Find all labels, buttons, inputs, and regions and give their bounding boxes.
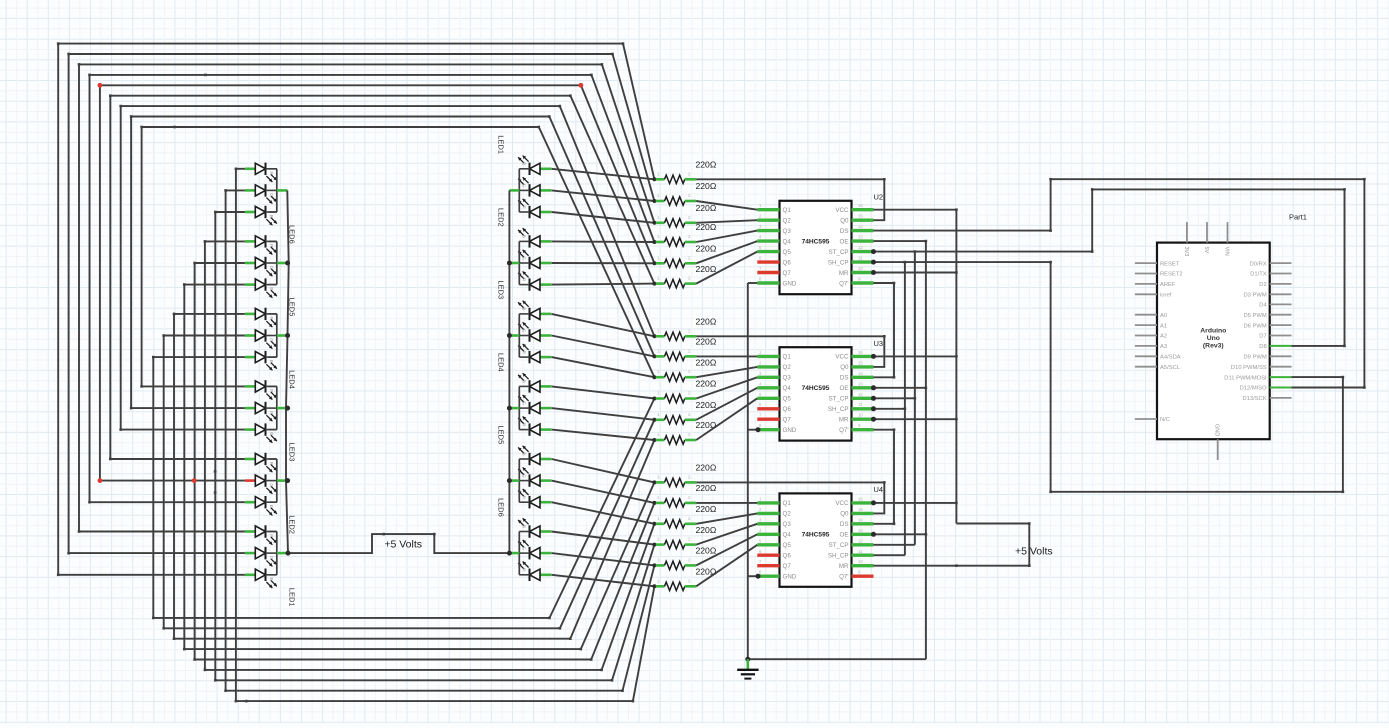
svg-text:GND: GND xyxy=(1214,424,1220,436)
svg-text:D6 PWM: D6 PWM xyxy=(1243,323,1266,329)
svg-text:RESET: RESET xyxy=(1160,261,1180,267)
node +5 Volts (right) xyxy=(874,522,1053,567)
svg-text:Q1: Q1 xyxy=(783,354,792,361)
svg-text:D3 PWM: D3 PWM xyxy=(1243,293,1266,299)
wire R7 to U3 Q0 (around top) xyxy=(696,335,885,367)
wire middle LED anode 2 to resistor xyxy=(552,190,655,201)
resistor R2 220&#937; xyxy=(652,181,716,205)
wire R13 to U4 Q0 (around top) xyxy=(696,481,885,513)
wire SH_CP bus xyxy=(871,261,906,555)
svg-text:ST_CP: ST_CP xyxy=(829,396,849,403)
svg-text:GND: GND xyxy=(783,574,797,581)
svg-text:LED3: LED3 xyxy=(288,443,297,462)
resistor R4 220&#937; xyxy=(652,222,716,246)
op-amp U2 74HC595 shift register xyxy=(757,193,883,295)
wire middle LED anode 10 to resistor xyxy=(552,386,655,398)
svg-text:B: B xyxy=(268,577,274,580)
svg-text:LED3: LED3 xyxy=(497,280,506,299)
svg-text:A5/SCL: A5/SCL xyxy=(1160,365,1181,371)
wire R18 to U4 Q4... pin xyxy=(696,545,757,587)
svg-text:G: G xyxy=(520,474,526,478)
svg-text:15: 15 xyxy=(858,360,863,365)
svg-text:Q7: Q7 xyxy=(783,563,792,570)
svg-text:A4/SDA: A4/SDA xyxy=(1160,355,1181,361)
RGB LED LED5 (middle bank) xyxy=(497,426,552,509)
wire middle LED anode 15 to resistor xyxy=(552,502,655,524)
svg-text:G: G xyxy=(268,338,274,342)
svg-text:Q6: Q6 xyxy=(783,259,792,266)
resistor R1 220&#937; xyxy=(652,160,716,184)
resistor R18 220&#937; xyxy=(652,567,716,591)
wire R6 to U2 Q4... pin xyxy=(696,252,757,284)
svg-text:74HC595: 74HC595 xyxy=(802,239,830,246)
svg-text:B: B xyxy=(268,360,274,363)
svg-text:Q6: Q6 xyxy=(783,406,792,413)
svg-text:Q2: Q2 xyxy=(783,364,792,371)
wire middle LED anode 8 to resistor xyxy=(552,336,655,357)
wire R16 to U4 Q2... pin xyxy=(696,524,757,545)
svg-text:Q5: Q5 xyxy=(783,542,792,549)
svg-text:LED1: LED1 xyxy=(288,588,297,607)
RGB LED LED2 (middle bank) xyxy=(497,208,552,291)
svg-text:Part1: Part1 xyxy=(1289,213,1307,222)
svg-text:G: G xyxy=(268,556,274,560)
svg-text:(Rev3): (Rev3) xyxy=(1203,343,1224,350)
RGB LED LED6 (middle bank) xyxy=(497,498,552,581)
wire middle LED anode 12 to resistor xyxy=(552,430,655,440)
svg-text:ST_CP: ST_CP xyxy=(829,542,849,549)
svg-text:MR: MR xyxy=(839,270,849,277)
svg-text:D9 PWM: D9 PWM xyxy=(1243,355,1266,361)
RGB LED LED2 (left bank) xyxy=(245,453,297,534)
svg-text:LED1: LED1 xyxy=(497,135,506,154)
RGB LED LED3 (middle bank) xyxy=(497,280,552,363)
svg-text:R: R xyxy=(520,205,526,209)
wire bus bottom 5 (left LED bank to resistor) xyxy=(193,262,654,661)
wire bus top 5 (left LED bank to resistor) xyxy=(99,84,655,482)
svg-text:Q6: Q6 xyxy=(783,553,792,560)
svg-text:LED4: LED4 xyxy=(497,353,506,372)
svg-text:+5 Volts: +5 Volts xyxy=(384,539,422,551)
svg-text:14: 14 xyxy=(858,517,863,522)
svg-text:ioref: ioref xyxy=(1160,293,1172,299)
svg-text:B: B xyxy=(520,452,526,455)
op-amp U4 74HC595 shift register xyxy=(757,485,883,587)
svg-text:R: R xyxy=(520,423,526,427)
red corner markers on bus top 5 xyxy=(98,83,584,88)
svg-text:B: B xyxy=(520,307,526,310)
svg-text:N/C: N/C xyxy=(1160,417,1170,423)
resistor R15 220&#937; xyxy=(652,504,716,528)
RGB LED LED5 (left bank) xyxy=(245,235,297,316)
wire VCC bus xyxy=(871,208,958,523)
wire middle LED anode 1 to resistor xyxy=(552,169,655,180)
wire common bus middle bank xyxy=(507,190,512,553)
svg-text:A3: A3 xyxy=(1160,344,1167,350)
svg-text:D5 PWM: D5 PWM xyxy=(1243,313,1266,319)
wire bus bottom 3 (left LED bank to resistor) xyxy=(214,211,654,682)
wire bus top 2 (left LED bank to resistor) xyxy=(67,53,654,555)
RGB LED LED4 (left bank) xyxy=(245,308,297,389)
wire R2 to U2 Q0... pin xyxy=(696,201,757,210)
wire bus bottom 1 (left LED bank to resistor) xyxy=(235,168,655,703)
svg-text:Q1: Q1 xyxy=(783,500,792,507)
resistor R11 220&#937; xyxy=(652,400,716,424)
resistor R17 220&#937; xyxy=(652,546,716,570)
svg-text:AREF: AREF xyxy=(1160,282,1176,288)
svg-text:LED4: LED4 xyxy=(288,370,297,389)
svg-text:B: B xyxy=(520,235,526,238)
svg-text:12: 12 xyxy=(858,392,863,397)
wire R15 to U4 Q1... pin xyxy=(696,513,757,523)
svg-text:Q7': Q7' xyxy=(839,574,848,581)
svg-text:G: G xyxy=(268,266,274,270)
svg-text:LED5: LED5 xyxy=(497,426,506,445)
svg-text:G: G xyxy=(268,483,274,487)
svg-text:220Ω: 220Ω xyxy=(696,337,717,347)
RGB LED LED3 (left bank) xyxy=(245,380,297,461)
node +5 Volts (left) xyxy=(286,533,512,556)
svg-text:Q2: Q2 xyxy=(783,218,792,225)
svg-text:R: R xyxy=(520,496,526,500)
svg-text:Q4: Q4 xyxy=(783,385,792,392)
svg-text:13: 13 xyxy=(858,528,863,533)
svg-text:13: 13 xyxy=(858,235,863,240)
svg-text:Q5: Q5 xyxy=(783,249,792,256)
svg-text:MR: MR xyxy=(839,563,849,570)
svg-text:DS: DS xyxy=(840,228,849,235)
wire middle LED anode 13 to resistor xyxy=(552,459,655,482)
svg-text:220Ω: 220Ω xyxy=(696,264,717,274)
svg-text:11: 11 xyxy=(858,402,863,407)
svg-text:B: B xyxy=(268,215,274,218)
svg-text:220Ω: 220Ω xyxy=(696,483,717,493)
wire bus top 3 (left LED bank to resistor) xyxy=(78,63,655,533)
svg-text:A1: A1 xyxy=(1160,323,1167,329)
svg-text:VCC: VCC xyxy=(835,500,849,507)
svg-text:D0/RX: D0/RX xyxy=(1250,261,1267,267)
ground xyxy=(737,659,758,678)
svg-text:R: R xyxy=(268,317,274,321)
wire middle LED anode 5 to resistor xyxy=(552,262,655,264)
resistor R7 220&#937; xyxy=(652,317,716,341)
svg-text:Q1: Q1 xyxy=(783,207,792,214)
svg-text:B: B xyxy=(520,380,526,383)
RGB LED LED6 (left bank) xyxy=(245,163,297,244)
wire R17 to U4 Q3... pin xyxy=(696,534,757,565)
svg-text:SH_CP: SH_CP xyxy=(828,553,849,560)
svg-text:15: 15 xyxy=(858,214,863,219)
wire R3 to U2 Q1... pin xyxy=(696,220,757,223)
svg-text:Q5: Q5 xyxy=(783,396,792,403)
svg-text:D4: D4 xyxy=(1259,303,1267,309)
svg-text:G: G xyxy=(520,547,526,551)
svg-text:R: R xyxy=(268,534,274,538)
svg-text:R: R xyxy=(268,389,274,393)
svg-text:74HC595: 74HC595 xyxy=(802,385,830,392)
svg-text:G: G xyxy=(520,184,526,188)
svg-text:Q2: Q2 xyxy=(783,511,792,518)
wire middle LED anode 7 to resistor xyxy=(552,314,655,336)
svg-text:DS: DS xyxy=(840,521,849,528)
wire R4 to U2 Q2... pin xyxy=(696,231,757,242)
svg-text:14: 14 xyxy=(858,371,863,376)
wire bus top 1 (left LED bank to resistor) xyxy=(57,42,655,576)
RGB LED LED1 (middle bank) xyxy=(497,135,552,218)
resistor R16 220&#937; xyxy=(652,525,716,549)
svg-text:220Ω: 220Ω xyxy=(696,222,717,232)
wire U2 Q7' to U3 DS xyxy=(874,282,896,379)
wire R14 to U4 Q0... pin xyxy=(696,502,757,504)
svg-text:SH_CP: SH_CP xyxy=(828,259,849,266)
svg-text:D1/TX: D1/TX xyxy=(1250,272,1267,278)
svg-text:B: B xyxy=(520,162,526,165)
wire middle LED anode 11 to resistor xyxy=(552,408,655,420)
wire bus top 7 (left LED bank to resistor) xyxy=(119,105,654,431)
svg-text:Q7': Q7' xyxy=(839,427,848,434)
svg-text:220Ω: 220Ω xyxy=(696,379,717,389)
svg-text:ST_CP: ST_CP xyxy=(829,249,849,256)
wire R10 to U3 Q2... pin xyxy=(696,377,757,398)
svg-text:D2: D2 xyxy=(1259,282,1266,288)
wire U2 ST_CP to Arduino D8 xyxy=(871,188,1346,347)
svg-text:Q3: Q3 xyxy=(783,228,792,235)
svg-text:D11 PWM/MOSI: D11 PWM/MOSI xyxy=(1224,375,1267,381)
svg-text:R: R xyxy=(520,351,526,355)
wire middle LED anode 3 to resistor xyxy=(552,212,655,223)
svg-text:GND: GND xyxy=(783,427,797,434)
wire middle LED anode 9 to resistor xyxy=(552,357,655,377)
svg-text:Q7: Q7 xyxy=(783,417,792,424)
svg-text:U3: U3 xyxy=(874,339,884,348)
wire bus top 9 (left LED bank to resistor) xyxy=(140,126,654,388)
wire common bus left bank xyxy=(285,190,290,553)
svg-text:OE: OE xyxy=(840,238,849,245)
RGB LED LED4 (middle bank) xyxy=(497,353,552,436)
svg-text:220Ω: 220Ω xyxy=(696,244,717,254)
svg-text:Q4: Q4 xyxy=(783,532,792,539)
wire U3 Q7' to U4 DS xyxy=(874,428,896,525)
svg-text:U2: U2 xyxy=(874,193,884,202)
resistor R9 220&#937; xyxy=(652,357,716,381)
resistor R8 220&#937; xyxy=(652,337,716,361)
svg-text:11: 11 xyxy=(858,549,863,554)
wire middle LED anode 18 to resistor xyxy=(552,575,655,587)
svg-text:220Ω: 220Ω xyxy=(696,181,717,191)
svg-text:10: 10 xyxy=(858,559,863,564)
svg-text:Uno: Uno xyxy=(1207,335,1220,342)
svg-text:VIN: VIN xyxy=(1224,247,1230,256)
svg-text:D12/MISO: D12/MISO xyxy=(1240,386,1268,392)
wire R8 to U3 Q0... pin xyxy=(696,355,757,357)
wire bus bottom 9 (left LED bank to resistor) xyxy=(152,356,654,619)
svg-text:Q7': Q7' xyxy=(839,280,848,287)
svg-text:LED2: LED2 xyxy=(497,208,506,227)
svg-text:U4: U4 xyxy=(874,485,884,494)
svg-text:G: G xyxy=(268,193,274,197)
svg-text:SH_CP: SH_CP xyxy=(828,406,849,413)
svg-text:A2: A2 xyxy=(1160,334,1167,340)
svg-text:220Ω: 220Ω xyxy=(696,317,717,327)
wire R12 to U3 Q4... pin xyxy=(696,398,757,440)
svg-text:DS: DS xyxy=(840,375,849,382)
svg-text:G: G xyxy=(520,256,526,260)
svg-text:74HC595: 74HC595 xyxy=(802,531,830,538)
svg-text:10: 10 xyxy=(858,413,863,418)
svg-text:G: G xyxy=(520,329,526,333)
svg-text:OE: OE xyxy=(840,385,849,392)
svg-text:5V: 5V xyxy=(1203,247,1209,254)
svg-text:D10 PWM/SS: D10 PWM/SS xyxy=(1231,365,1267,371)
wire bus bottom 6 (left LED bank to resistor) xyxy=(183,283,654,650)
svg-text:220Ω: 220Ω xyxy=(696,400,717,410)
wire R9 to U3 Q1... pin xyxy=(696,367,757,377)
svg-text:LED6: LED6 xyxy=(497,498,506,517)
svg-text:220Ω: 220Ω xyxy=(696,504,717,514)
wire joint squares xyxy=(173,74,247,703)
wire bus top 6 (left LED bank to resistor) xyxy=(109,94,654,460)
svg-text:G: G xyxy=(268,411,274,415)
svg-text:3V3: 3V3 xyxy=(1183,247,1189,257)
wire R1 to U2 Q0 (around top) xyxy=(696,178,885,220)
svg-text:10: 10 xyxy=(858,266,863,271)
resistor R13 220&#937; xyxy=(652,463,716,487)
wire bus bottom 7 (left LED bank to resistor) xyxy=(173,313,655,640)
resistor R3 220&#937; xyxy=(652,203,716,227)
svg-text:Q0: Q0 xyxy=(840,218,849,225)
svg-text:B: B xyxy=(268,505,274,508)
svg-text:R: R xyxy=(268,462,274,466)
svg-text:LED2: LED2 xyxy=(288,515,297,534)
svg-text:11: 11 xyxy=(858,256,863,261)
svg-text:D8: D8 xyxy=(1259,344,1266,350)
svg-text:220Ω: 220Ω xyxy=(696,203,717,213)
op-amp U3 74HC595 shift register xyxy=(757,339,883,441)
op-amp Part1 Arduino Uno (Rev3) xyxy=(1135,213,1307,461)
svg-text:14: 14 xyxy=(858,224,863,229)
svg-text:+5 Volts: +5 Volts xyxy=(1015,546,1053,558)
wire middle LED anode 6 to resistor xyxy=(552,284,655,285)
wire middle LED anode 14 to resistor xyxy=(552,481,655,503)
svg-text:220Ω: 220Ω xyxy=(696,463,717,473)
svg-text:Q4: Q4 xyxy=(783,238,792,245)
svg-text:RESET2: RESET2 xyxy=(1160,272,1183,278)
resistor R5 220&#937; xyxy=(652,244,716,268)
svg-text:R: R xyxy=(268,244,274,248)
svg-text:D13/SCK: D13/SCK xyxy=(1243,396,1267,402)
wire bus top 4 (left LED bank to resistor) xyxy=(88,74,654,504)
svg-text:16: 16 xyxy=(858,203,863,208)
wire middle LED anode 17 to resistor xyxy=(552,553,655,565)
svg-text:R: R xyxy=(520,568,526,572)
wire U2 SH_CP to Arduino D11/MOSI xyxy=(871,260,1344,494)
svg-text:VCC: VCC xyxy=(835,354,849,361)
wire middle LED anode 16 to resistor xyxy=(552,532,655,545)
svg-text:B: B xyxy=(268,432,274,435)
svg-text:MR: MR xyxy=(839,417,849,424)
svg-text:Q7: Q7 xyxy=(783,270,792,277)
wire bus bottom 4 (left LED bank to resistor) xyxy=(204,240,655,671)
wire R11 to U3 Q3... pin xyxy=(696,388,757,420)
RGB LED LED1 (left bank) xyxy=(245,525,297,606)
svg-text:Q3: Q3 xyxy=(783,375,792,382)
resistor R14 220&#937; xyxy=(652,483,716,507)
svg-text:13: 13 xyxy=(858,381,863,386)
svg-text:220Ω: 220Ω xyxy=(696,525,717,535)
svg-text:16: 16 xyxy=(858,496,863,501)
svg-text:D7: D7 xyxy=(1259,334,1266,340)
svg-text:Q0: Q0 xyxy=(840,364,849,371)
svg-text:B: B xyxy=(520,525,526,528)
wire bus bottom 8 (left LED bank to resistor) xyxy=(162,334,654,629)
svg-text:12: 12 xyxy=(858,538,863,543)
wire ST_CP bus xyxy=(871,250,916,545)
wire bus bottom 2 (left LED bank to resistor) xyxy=(224,189,654,692)
wire R5 to U2 Q3... pin xyxy=(696,241,757,263)
svg-text:OE: OE xyxy=(840,532,849,539)
resistor R10 220&#937; xyxy=(652,379,716,403)
resistor R12 220&#937; xyxy=(652,420,716,444)
svg-text:220Ω: 220Ω xyxy=(696,546,717,556)
wire GND bus (U2,U3,U4 to ground) xyxy=(745,283,926,662)
svg-text:220Ω: 220Ω xyxy=(696,357,717,367)
wire OE bus xyxy=(871,240,927,659)
svg-text:220Ω: 220Ω xyxy=(696,160,717,170)
svg-text:16: 16 xyxy=(858,350,863,355)
svg-text:VCC: VCC xyxy=(835,207,849,214)
svg-text:Q3: Q3 xyxy=(783,521,792,528)
svg-text:B: B xyxy=(268,287,274,290)
wire middle LED anode 4 to resistor xyxy=(552,240,655,243)
svg-text:G: G xyxy=(520,401,526,405)
svg-text:GND: GND xyxy=(783,280,797,287)
wire U2 DS to Arduino D12/MISO xyxy=(874,178,1366,389)
svg-text:A0: A0 xyxy=(1160,313,1167,319)
svg-text:Arduino: Arduino xyxy=(1200,328,1226,335)
red junction marker on LED2 G wire xyxy=(98,478,197,483)
svg-text:R: R xyxy=(268,171,274,175)
svg-text:15: 15 xyxy=(858,507,863,512)
svg-text:12: 12 xyxy=(858,245,863,250)
wire bus top 8 (left LED bank to resistor) xyxy=(130,115,655,409)
resistor R6 220&#937; xyxy=(652,264,716,288)
svg-text:Q0: Q0 xyxy=(840,511,849,518)
svg-text:R: R xyxy=(520,278,526,282)
